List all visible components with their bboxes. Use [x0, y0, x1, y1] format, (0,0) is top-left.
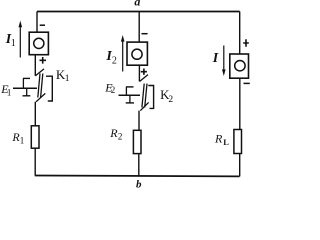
plus sign below A1 [40, 57, 47, 64]
svg-text:2: 2 [111, 85, 116, 95]
svg-text:2: 2 [118, 132, 123, 142]
label R1 [11, 130, 24, 145]
battery E1 bottom connector [26, 88, 28, 96]
label I [212, 51, 219, 66]
wire: A2 to switch K2 [138, 65, 140, 81]
wire: A3 to RL [239, 78, 241, 129]
switch K2 jaw bracket [148, 86, 153, 109]
battery E1 top connector [22, 78, 24, 88]
node a label [134, 0, 140, 9]
svg-text:2: 2 [168, 95, 173, 105]
minus sign below A3 [244, 82, 250, 84]
battery E1 bottom short plate [23, 95, 31, 97]
wire: middle branch top (rail to ammeter A2) [138, 12, 140, 43]
battery E2 long plate [119, 94, 141, 96]
current arrow I2 [122, 41, 124, 72]
svg-text:a: a [134, 0, 140, 9]
svg-text:1: 1 [20, 136, 25, 146]
svg-text:1: 1 [11, 38, 16, 49]
label K1 [56, 67, 70, 84]
resistor R1 [31, 126, 39, 148]
label I2 [105, 49, 117, 66]
switch K2 blade top diagonal [140, 75, 149, 82]
switch K1 jaw bracket [46, 76, 52, 101]
battery E1 top short plate [23, 77, 30, 79]
label K2 [160, 87, 173, 105]
wire: K1 to R1 [34, 102, 36, 126]
battery E1 long plate [13, 87, 37, 89]
label R2 [109, 126, 122, 142]
battery E2 bottom short plate [126, 102, 134, 104]
battery E2 bottom connector [129, 95, 131, 103]
ammeter A2 square [127, 42, 147, 65]
plus sign at A3 top [243, 39, 249, 46]
svg-text:2: 2 [112, 56, 117, 67]
label E1 [0, 82, 11, 98]
switch K1 bottom diagonal [36, 93, 45, 101]
switch K1 blade double line [38, 74, 43, 98]
ammeter A1 square [29, 32, 48, 55]
svg-text:b: b [136, 179, 142, 191]
resistor RL [234, 130, 242, 154]
svg-text:1: 1 [7, 88, 11, 98]
svg-text:1: 1 [65, 74, 70, 84]
svg-text:L: L [223, 137, 229, 147]
current arrow I (down) [223, 46, 225, 70]
ammeter A2 dial circle [132, 49, 142, 59]
svg-text:R: R [214, 131, 223, 145]
wire: left branch top (rail to ammeter A1) [36, 12, 38, 33]
wire: K2 to R2 [138, 111, 140, 131]
wire: right branch top (rail to ammeter A3) [239, 12, 241, 55]
ammeter A3 square [230, 54, 249, 78]
switch K2 blade double line [142, 84, 147, 108]
switch K1 blade top diagonal [35, 69, 44, 76]
wire: R2 to bottom rail [138, 154, 140, 176]
battery E2 top connector [125, 87, 127, 95]
ammeter A1 dial circle [34, 38, 44, 48]
wire: RL to bottom rail [239, 154, 241, 177]
current arrow I1 [19, 27, 21, 58]
minus sign at A2 top [142, 33, 148, 35]
plus sign below A2 [141, 69, 147, 75]
ammeter A3 dial circle [235, 60, 245, 70]
label I1 [5, 32, 16, 49]
node b label [136, 179, 142, 191]
battery E2 top short plate [126, 86, 134, 88]
switch K2 bottom diagonal [140, 102, 148, 110]
svg-text:I: I [212, 51, 219, 66]
wire: R1 to bottom rail [34, 148, 36, 175]
wire: bottom rail b [35, 175, 240, 178]
wire: A1 to switch K1 [34, 55, 36, 76]
label RL [214, 131, 229, 147]
minus sign at A1 top [40, 24, 45, 26]
wire: top rail a [37, 11, 240, 13]
label E2 [104, 81, 115, 96]
resistor R2 [133, 130, 141, 153]
